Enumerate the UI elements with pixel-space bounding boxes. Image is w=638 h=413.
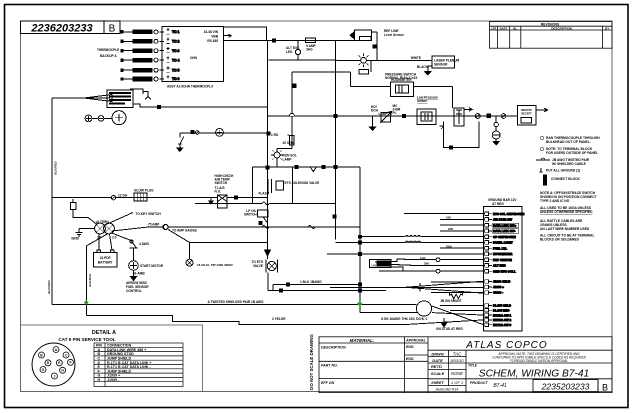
svg-text:1.0: 1.0 (97, 236, 102, 240)
svg-text:8 GN 16AWG THK 4SC SCHL 1: 8 GN 16AWG THK 4SC SCHL 1 (381, 317, 427, 321)
svg-text:GP SHUTDOWN: GP SHUTDOWN (493, 235, 516, 239)
svg-text:3AG: 3AG (306, 48, 313, 52)
svg-text:18 AB EL PIP GND 4WER: 18 AB EL PIP GND 4WER (197, 263, 233, 267)
svg-text:TYPE 2 AND IC NO: TYPE 2 AND IC NO (540, 199, 570, 203)
svg-text:4 AWG: 4 AWG (139, 242, 150, 246)
svg-text:TC 3: TC 3 (172, 49, 179, 53)
svg-text:/GND: /GND (71, 237, 80, 241)
svg-text:AT REG: AT REG (492, 202, 504, 206)
svg-text:BATTERY: BATTERY (98, 261, 114, 265)
svg-text:MATERIAL:: MATERIAL: (350, 338, 375, 343)
svg-text:TAC: TAC (453, 351, 462, 356)
svg-text:LAMP: LAMP (283, 158, 293, 162)
svg-text:9/03/10: 9/03/10 (450, 358, 464, 363)
svg-text:SHEET: SHEET (431, 381, 444, 385)
svg-text:PUT ALL GROUND (2): PUT ALL GROUND (2) (546, 169, 580, 173)
svg-text:BLOCKS OR SOLDERED: BLOCKS OR SOLDERED (540, 238, 580, 242)
svg-text:LED: LED (286, 50, 293, 54)
svg-text:AutoCAD R14: AutoCAD R14 (435, 388, 459, 392)
svg-text:W/ SHIELDED CABLE: W/ SHIELDED CABLE (552, 162, 587, 166)
svg-text:CONTROL: CONTROL (126, 289, 142, 293)
svg-text:2RD: 2RD (448, 227, 453, 231)
svg-text:HOURMETER: HOURMETER (493, 252, 513, 256)
svg-text:GND BUS COLL: GND BUS COLL (493, 269, 516, 273)
svg-text:SCHEM, WIRING B7-41: SCHEM, WIRING B7-41 (479, 368, 589, 379)
svg-text:TC 1: TC 1 (172, 30, 179, 34)
svg-text:TC 2: TC 2 (172, 40, 179, 44)
svg-text:EXTRA SW 1: EXTRA SW 1 (493, 313, 512, 317)
svg-text:TC 5: TC 5 (172, 68, 179, 72)
svg-text:JB GN SHUNT: JB GN SHUNT (440, 299, 462, 303)
svg-text:ALTERN: ALTERN (96, 220, 109, 224)
svg-text:ETS SOLENOID VALVE: ETS SOLENOID VALVE (285, 181, 320, 185)
svg-text:TC 6: TC 6 (172, 77, 179, 81)
svg-text:H: H (98, 378, 101, 382)
svg-text:1 BLK 1BAWG: 1 BLK 1BAWG (300, 280, 322, 284)
svg-text:DL485 NET-: DL485 NET- (493, 309, 510, 313)
svg-text:24 PDP: 24 PDP (100, 256, 112, 260)
svg-text:ALT EXC: ALT EXC (493, 264, 506, 268)
svg-text:J1939 -: J1939 - (493, 291, 503, 295)
svg-text:RETD: RETD (431, 364, 442, 369)
svg-text:BLK/RED: BLK/RED (47, 280, 51, 294)
svg-text:N.O.: N.O. (215, 190, 222, 194)
svg-text:ATLAS COPCO: ATLAS COPCO (465, 340, 547, 351)
svg-text:START MOTOR: START MOTOR (140, 264, 164, 268)
svg-text:B: B (109, 24, 116, 35)
svg-text:SENSOR: SENSOR (434, 63, 448, 67)
svg-text:ENG.: ENG. (406, 345, 414, 349)
svg-text:TITLE: TITLE (468, 364, 478, 368)
svg-text:PRODUCT: PRODUCT (470, 381, 489, 385)
svg-text:GLOW PLUG: GLOW PLUG (134, 189, 154, 193)
svg-text:FOREIGN SINGLE NATION APPRO: FOREIGN SINGLE NATION APPROVAL (510, 359, 568, 363)
svg-text:RECEPT: RECEPT (521, 112, 532, 116)
svg-text:2235203233: 2235203233 (541, 381, 590, 391)
svg-text:APPROVAL: APPROVAL (405, 339, 426, 343)
svg-text:LVL SENSOR: LVL SENSOR (372, 263, 392, 267)
svg-text:DL485 SHLD: DL485 SHLD (493, 304, 512, 308)
svg-text:2.0: 2.0 (112, 236, 117, 240)
svg-text:A-AMB: A-AMB (134, 272, 145, 276)
svg-text:RS 485: RS 485 (207, 39, 218, 43)
svg-text:NONE: NONE (451, 371, 463, 376)
svg-text:THERMOCPLE: THERMOCPLE (97, 48, 119, 52)
svg-text:WHITE: WHITE (411, 56, 421, 60)
svg-text:1GN: 1GN (420, 256, 425, 260)
svg-text:BLACK: BLACK (417, 65, 429, 69)
svg-text:B: B (602, 382, 608, 392)
svg-text:EXTRA SW 3: EXTRA SW 3 (493, 323, 512, 327)
svg-text:ASSY A2 6CHN THERMOCPLX: ASSY A2 6CHN THERMOCPLX (167, 84, 214, 88)
svg-text:FLASH: FLASH (259, 192, 270, 196)
svg-text:NORMAL RUN=11x19: NORMAL RUN=11x19 (385, 76, 417, 80)
svg-text:BL: BL (513, 26, 517, 30)
svg-text:REMOTE: REMOTE (521, 108, 532, 112)
svg-text:VBB: VBB (211, 35, 218, 39)
svg-text:BLK/BLK: BLK/BLK (88, 273, 92, 287)
svg-text:FOR USERS OUTSIDE OF PANEL: FOR USERS OUTSIDE OF PANEL (546, 151, 598, 155)
svg-text:EFF ON: EFF ON (321, 381, 335, 385)
svg-text:TO AMP GAUGE: TO AMP GAUGE (172, 229, 197, 233)
svg-text:DESCRIPTION: DESCRIPTION (551, 26, 572, 30)
svg-text:2WH: 2WH (446, 244, 452, 248)
svg-text:20 OHM: 20 OHM (283, 141, 295, 145)
svg-text:LAMP: LAMP (379, 112, 389, 116)
svg-text:PANEL LIGHT: PANEL LIGHT (493, 241, 513, 245)
svg-text:B7-41: B7-41 (493, 383, 507, 389)
svg-text:1BK: 1BK (446, 216, 451, 220)
svg-text:AIR FLTR SW: AIR FLTR SW (493, 218, 512, 222)
svg-text:A TWISTED SHIELDED PAIR 1B AWG: A TWISTED SHIELDED PAIR 1B AWG (208, 300, 265, 304)
svg-text:DRWN: DRWN (431, 351, 443, 356)
svg-text:VALVE: VALVE (253, 264, 263, 268)
svg-text:TC 4: TC 4 (172, 58, 179, 62)
svg-text:LTR: LTR (491, 26, 497, 30)
svg-text:G: G (42, 368, 45, 372)
svg-text:SCALE: SCALE (431, 371, 445, 376)
svg-text:TO KEY SWITCH: TO KEY SWITCH (136, 212, 162, 216)
svg-text:BLK/RED: BLK/RED (54, 161, 58, 175)
svg-text:CAT 9 PIN SERVICE TOOL: CAT 9 PIN SERVICE TOOL (58, 337, 115, 342)
svg-text:2236203233: 2236203233 (30, 22, 92, 34)
svg-text:PL: PL (393, 111, 397, 115)
svg-text:DATA LINK 485+: DATA LINK 485+ (493, 223, 516, 227)
svg-text:BULKHEAD OUT OF PANEL.: BULKHEAD OUT OF PANEL. (546, 140, 591, 144)
svg-text:BY: BY (605, 26, 609, 30)
svg-text:1 OF 1: 1 OF 1 (451, 380, 463, 385)
svg-text:J1939 SHLD: J1939 SHLD (493, 280, 511, 284)
svg-text:J1939 +: J1939 + (493, 285, 504, 289)
svg-text:PART NO.: PART NO. (321, 364, 338, 368)
svg-text:F: F (69, 361, 71, 365)
svg-text:J1939 -: J1939 - (107, 378, 120, 382)
svg-text:Switch: Switch (417, 99, 427, 103)
svg-text:SWITCH: SWITCH (244, 213, 257, 217)
svg-text:ETS SOL SHUTDOWN: ETS SOL SHUTDOWN (493, 212, 524, 216)
svg-text:CHN: CHN (190, 56, 198, 60)
svg-text:KEY SWITCH: KEY SWITCH (493, 258, 512, 262)
svg-text:2 YELGR: 2 YELGR (272, 317, 286, 321)
svg-text:DESCRIPTION: DESCRIPTION (321, 346, 346, 350)
svg-text:1 RD: 1 RD (271, 133, 279, 137)
svg-text:DCH: DCH (371, 109, 379, 113)
svg-text:DATE: DATE (500, 26, 508, 30)
svg-text:SWITCH: SWITCH (215, 181, 228, 185)
svg-text:24-48 VIN: 24-48 VIN (204, 30, 219, 34)
svg-text:Level Sensor: Level Sensor (384, 33, 405, 37)
svg-text:DO NOT SCALE DRAWING: DO NOT SCALE DRAWING (309, 334, 314, 390)
svg-text:FUEL LVL: FUEL LVL (493, 246, 507, 250)
svg-text:75 AMP: 75 AMP (148, 223, 160, 227)
svg-text:2BK: 2BK (424, 262, 429, 266)
svg-text:J: J (53, 374, 55, 378)
svg-text:UNLESS OTHERWISE SPECIFIED: UNLESS OTHERWISE SPECIFIED (540, 210, 593, 214)
svg-text:GN STUD AT REG: GN STUD AT REG (436, 327, 463, 331)
svg-text:DETAIL A: DETAIL A (92, 330, 116, 336)
svg-text:DATA LINK 485-: DATA LINK 485- (493, 229, 515, 233)
svg-text:ENG.: ENG. (406, 357, 414, 361)
svg-text:AN LAST WIRE NUMBER USED: AN LAST WIRE NUMBER USED (540, 227, 590, 231)
svg-text:CONNECT BLOCK: CONNECT BLOCK (551, 177, 581, 181)
svg-text:DATE: DATE (432, 358, 443, 363)
svg-text:EXTRA SW 2: EXTRA SW 2 (493, 318, 512, 322)
svg-text:BACKUP A: BACKUP A (100, 54, 117, 58)
svg-text:12 GA: 12 GA (118, 193, 128, 197)
